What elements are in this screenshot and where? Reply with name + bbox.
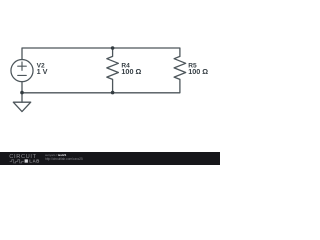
watermark user text line 2: [45, 158, 83, 161]
CircuitLab logo: [0, 152, 44, 165]
node junction top R4: [111, 46, 115, 50]
svg-text:100 Ω: 100 Ω: [121, 67, 141, 76]
resistor R5: [174, 56, 186, 79]
wire top net: [22, 48, 180, 60]
svg-text:1 V: 1 V: [37, 67, 48, 76]
watermark user text line 1: [45, 154, 66, 157]
node junction ground: [20, 91, 24, 95]
watermark bar: [0, 152, 220, 165]
svg-text:100 Ω: 100 Ω: [188, 67, 208, 76]
wire bottom net: [22, 79, 180, 102]
voltage source V2: [11, 60, 33, 82]
resistor R4: [107, 48, 119, 93]
ground: [13, 102, 30, 111]
svg-text:LAB: LAB: [29, 159, 40, 164]
node junction bottom R4: [111, 91, 115, 95]
